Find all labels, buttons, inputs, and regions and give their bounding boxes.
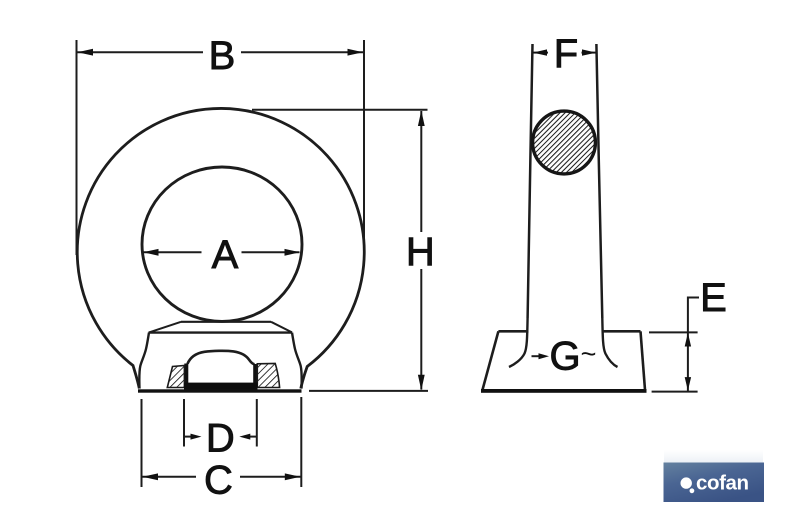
thread hole left jamb xyxy=(184,364,188,387)
svg-text:H: H xyxy=(406,230,435,274)
svg-text:G: G xyxy=(549,335,580,379)
shank right edge (side view) xyxy=(596,44,602,318)
thread hole arch xyxy=(188,351,255,365)
dimension E bottom extension line xyxy=(652,391,698,393)
dimension B extension line left xyxy=(76,40,78,255)
dimension C arrow left xyxy=(143,473,159,480)
dimension A arrow left xyxy=(143,249,159,256)
nut collar top line xyxy=(181,321,271,323)
nut left side / skirt xyxy=(139,333,149,389)
dimension A line xyxy=(144,251,202,253)
G leader arrow xyxy=(532,355,542,357)
dimension H bottom extension line xyxy=(309,390,428,392)
dimension E line xyxy=(687,297,689,393)
base top edge left (side view) xyxy=(498,330,528,333)
dimension B extension line right xyxy=(363,40,365,253)
thread hole right jamb xyxy=(253,364,257,386)
cofan logo dot small xyxy=(690,488,695,493)
dimension H arrow up xyxy=(418,111,425,127)
eye section hatched circle xyxy=(533,111,596,174)
dimension C arrow right xyxy=(285,473,301,480)
dimension F line + arrows xyxy=(533,52,548,54)
shank left fillet curl xyxy=(509,318,528,367)
thread bore bottom bar xyxy=(184,383,258,392)
dimension H arrow down xyxy=(418,375,425,391)
thread section hatch left xyxy=(167,366,184,388)
nut collar right slant xyxy=(271,322,292,333)
svg-text:C: C xyxy=(204,459,233,503)
base right edge xyxy=(641,331,646,390)
dimension E top extension line xyxy=(649,331,698,333)
nut right side / skirt xyxy=(292,333,302,389)
svg-text:E: E xyxy=(700,276,727,320)
dimension D extension line right xyxy=(256,399,258,447)
dimension E corner bracket xyxy=(688,297,699,299)
dimension D extension line left xyxy=(183,399,185,447)
dimension C extension line right xyxy=(300,397,302,487)
thread section hatch right xyxy=(257,363,279,387)
outer ring outline (front view) xyxy=(77,108,364,388)
shank left edge (side view) xyxy=(528,44,533,318)
nut top edge xyxy=(149,331,293,333)
svg-text:B: B xyxy=(209,34,236,78)
dimension B arrow right xyxy=(348,49,364,56)
dimension E arrow down xyxy=(685,377,691,391)
dimension C line xyxy=(142,476,196,478)
dimension H line xyxy=(420,111,422,232)
dimension B arrow left xyxy=(78,49,94,56)
svg-text:~: ~ xyxy=(581,339,597,369)
dimension B line xyxy=(77,51,203,53)
dimension E arrow up xyxy=(685,333,691,347)
base bottom edge xyxy=(481,389,647,393)
shank right fillet curl xyxy=(602,318,617,367)
svg-text:cofan: cofan xyxy=(696,472,749,495)
dimension A arrow right xyxy=(285,249,301,256)
nut collar left slant xyxy=(149,322,181,333)
nut bottom edge xyxy=(138,389,302,392)
dimension D arrow right (points left) xyxy=(248,436,257,438)
cofan logo halo xyxy=(664,450,763,463)
svg-text:D: D xyxy=(206,417,235,461)
svg-text:F: F xyxy=(554,32,578,76)
base left edge xyxy=(483,331,499,390)
dimension C extension line left xyxy=(141,399,143,487)
dimension D arrow left (points right) xyxy=(184,436,193,438)
ring inner hole (front view) xyxy=(142,167,302,321)
svg-text:A: A xyxy=(212,233,239,277)
cofan logo plate xyxy=(664,463,765,503)
cofan logo dot large xyxy=(681,477,692,488)
dimension H top extension line xyxy=(252,109,428,111)
base top edge right (side view) xyxy=(602,330,641,333)
